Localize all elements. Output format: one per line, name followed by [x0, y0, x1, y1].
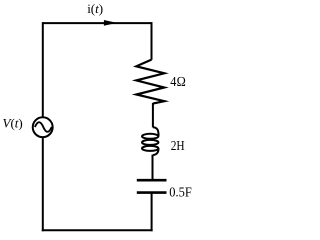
wire bottom — [42, 229, 153, 231]
wire right between resistor and inductor — [152, 103, 154, 127]
capacitor C top plate — [137, 179, 167, 182]
voltage source V1 circle — [33, 117, 53, 137]
wire right between inductor and capacitor — [152, 155, 154, 181]
wire right upper — [151, 22, 153, 60]
svg-text:V(t): V(t) — [3, 115, 23, 130]
wire left upper — [42, 22, 44, 117]
svg-text:4Ω: 4Ω — [170, 75, 186, 90]
inductor loop 1 — [142, 134, 158, 139]
voltage source sine wave — [35, 122, 52, 132]
inductor loop 2 — [142, 140, 158, 145]
svg-text:i(t): i(t) — [87, 1, 103, 16]
wire left lower — [42, 138, 44, 231]
inductor loop 3 — [142, 146, 158, 151]
wire top — [43, 22, 152, 24]
wire right lower — [151, 193, 153, 232]
svg-text:2H: 2H — [171, 139, 185, 154]
inductor L 2H coil top hook — [142, 127, 159, 155]
current arrow — [104, 20, 117, 26]
resistor R 4ohm zigzag — [136, 60, 164, 104]
svg-text:0.5F: 0.5F — [169, 185, 192, 200]
capacitor C bottom plate — [137, 191, 167, 194]
inductor bottom hook — [153, 148, 159, 155]
